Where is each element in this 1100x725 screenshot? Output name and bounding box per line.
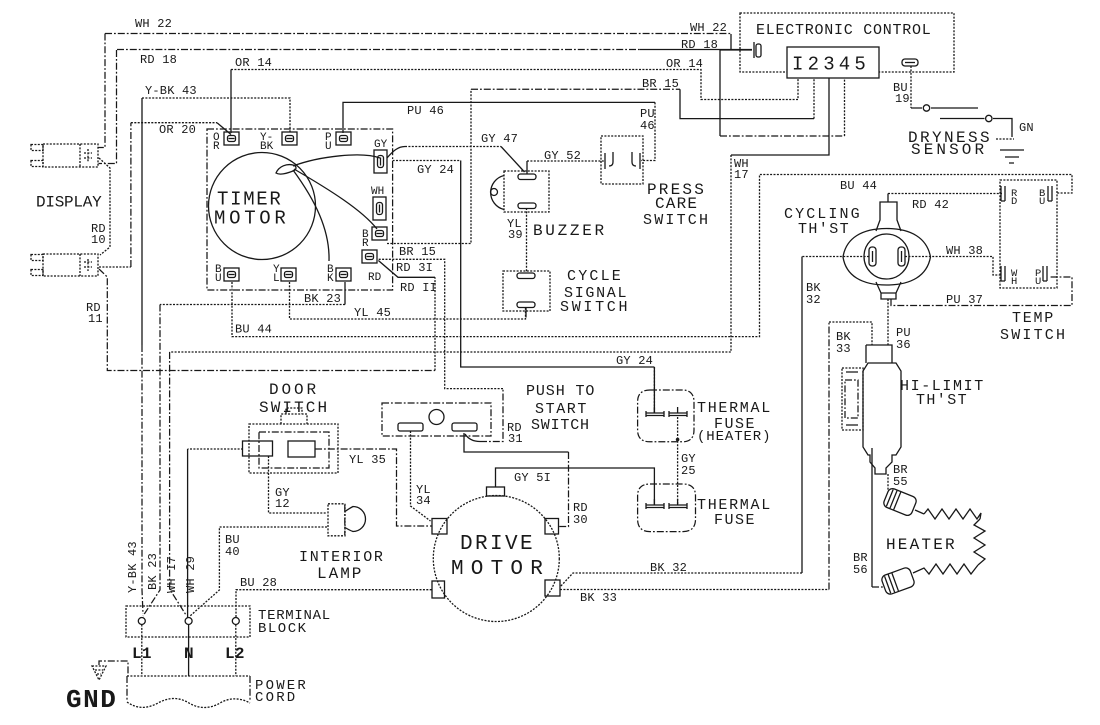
svg-text:GN: GN	[1019, 121, 1034, 135]
svg-text:BLOCK: BLOCK	[258, 621, 308, 637]
svg-text:INTERIOR: INTERIOR	[299, 549, 385, 566]
svg-text:25: 25	[681, 464, 696, 478]
svg-text:BU 28: BU 28	[240, 576, 277, 590]
svg-text:10: 10	[91, 233, 106, 247]
svg-text:32: 32	[806, 293, 821, 307]
svg-text:H: H	[1011, 276, 1017, 288]
svg-text:BK 33: BK 33	[580, 591, 617, 605]
svg-text:SWITCH: SWITCH	[259, 399, 329, 417]
svg-text:56: 56	[853, 563, 868, 577]
svg-text:START: START	[535, 401, 588, 418]
svg-text:Y-BK 43: Y-BK 43	[145, 84, 197, 98]
svg-text:PUSH TO: PUSH TO	[526, 383, 595, 400]
svg-text:RD 18: RD 18	[681, 38, 718, 52]
svg-text:U: U	[215, 273, 222, 285]
svg-text:BK 32: BK 32	[650, 561, 687, 575]
svg-text:GY 47: GY 47	[481, 132, 518, 146]
svg-text:R: R	[362, 238, 369, 250]
svg-text:PU 46: PU 46	[407, 104, 444, 118]
svg-text:WH 22: WH 22	[690, 21, 727, 35]
svg-text:MOTOR: MOTOR	[451, 558, 550, 581]
svg-text:THERMAL: THERMAL	[697, 400, 772, 417]
svg-text:BU 44: BU 44	[235, 323, 272, 337]
svg-text:GY: GY	[374, 139, 388, 151]
svg-text:K: K	[327, 273, 334, 285]
svg-text:CYCLE: CYCLE	[567, 268, 623, 285]
svg-text:WH I7: WH I7	[165, 556, 179, 593]
svg-text:36: 36	[896, 338, 911, 352]
svg-text:55: 55	[893, 475, 908, 489]
svg-text:D: D	[1011, 196, 1017, 208]
svg-text:19: 19	[895, 92, 910, 106]
svg-text:40: 40	[225, 545, 240, 559]
svg-text:BUZZER: BUZZER	[533, 222, 607, 240]
svg-text:FUSE: FUSE	[714, 512, 756, 529]
svg-text:11: 11	[88, 312, 103, 326]
svg-text:SENSOR: SENSOR	[911, 141, 987, 159]
svg-text:U: U	[1039, 196, 1045, 208]
svg-text:GY 52: GY 52	[544, 149, 581, 163]
svg-text:BK 23: BK 23	[146, 553, 160, 590]
svg-text:BU 44: BU 44	[840, 179, 877, 193]
svg-text:CORD: CORD	[255, 690, 297, 706]
svg-text:WH 22: WH 22	[135, 17, 172, 31]
svg-text:GY 24: GY 24	[616, 354, 653, 368]
svg-text:LAMP: LAMP	[317, 565, 363, 583]
svg-text:L1: L1	[132, 645, 152, 663]
svg-text:DISPLAY: DISPLAY	[36, 194, 102, 212]
svg-text:ELECTRONIC CONTROL: ELECTRONIC CONTROL	[756, 22, 932, 39]
svg-text:39: 39	[508, 228, 523, 242]
svg-text:GY 5I: GY 5I	[514, 471, 551, 485]
svg-text:DRIVE: DRIVE	[460, 533, 535, 556]
svg-text:BR 15: BR 15	[642, 77, 679, 91]
svg-text:OR 14: OR 14	[235, 56, 272, 70]
svg-text:OR 14: OR 14	[666, 57, 703, 71]
svg-text:SWITCH: SWITCH	[560, 299, 630, 316]
svg-text:17: 17	[734, 168, 749, 182]
svg-text:33: 33	[836, 342, 851, 356]
svg-text:TEMP: TEMP	[1012, 310, 1055, 327]
svg-text:(HEATER): (HEATER)	[697, 429, 771, 445]
svg-text:YL 35: YL 35	[349, 453, 386, 467]
svg-text:RD 18: RD 18	[140, 53, 177, 67]
svg-text:MOTOR: MOTOR	[214, 208, 290, 230]
svg-text:31: 31	[508, 432, 523, 446]
svg-text:N: N	[184, 645, 194, 663]
svg-text:L: L	[273, 273, 280, 285]
svg-text:RD 42: RD 42	[912, 198, 949, 212]
svg-text:SWITCH: SWITCH	[643, 212, 710, 229]
svg-text:30: 30	[573, 513, 588, 527]
svg-text:I2345: I2345	[792, 54, 870, 76]
svg-text:RD: RD	[368, 272, 382, 284]
svg-text:TH'ST: TH'ST	[916, 392, 968, 409]
svg-text:WH 38: WH 38	[946, 244, 983, 258]
svg-text:YL 45: YL 45	[354, 306, 391, 320]
svg-text:12: 12	[275, 497, 290, 511]
svg-text:HEATER: HEATER	[886, 536, 957, 554]
svg-text:BK 23: BK 23	[304, 292, 341, 306]
svg-text:U: U	[325, 141, 332, 153]
svg-text:GND: GND	[66, 685, 117, 715]
svg-text:SWITCH: SWITCH	[1000, 327, 1067, 344]
svg-text:Y-BK 43: Y-BK 43	[126, 541, 140, 593]
svg-text:PU 37: PU 37	[946, 293, 983, 307]
svg-text:BK: BK	[260, 141, 274, 153]
svg-text:GY 24: GY 24	[417, 163, 454, 177]
svg-text:34: 34	[416, 494, 431, 508]
svg-text:RD 3I: RD 3I	[396, 261, 433, 275]
svg-text:OR 20: OR 20	[159, 123, 196, 137]
svg-text:CARE: CARE	[655, 195, 698, 213]
svg-text:46: 46	[640, 119, 655, 133]
svg-text:TH'ST: TH'ST	[798, 221, 850, 238]
svg-text:SWITCH: SWITCH	[531, 417, 590, 434]
svg-text:U: U	[1035, 276, 1041, 288]
svg-text:R: R	[213, 141, 220, 153]
svg-text:WH 29: WH 29	[184, 556, 198, 593]
svg-text:BR 15: BR 15	[399, 245, 436, 259]
svg-text:L2: L2	[225, 645, 245, 663]
svg-text:RD II: RD II	[400, 281, 437, 295]
svg-text:WH: WH	[371, 186, 384, 198]
svg-text:DOOR: DOOR	[269, 381, 319, 399]
